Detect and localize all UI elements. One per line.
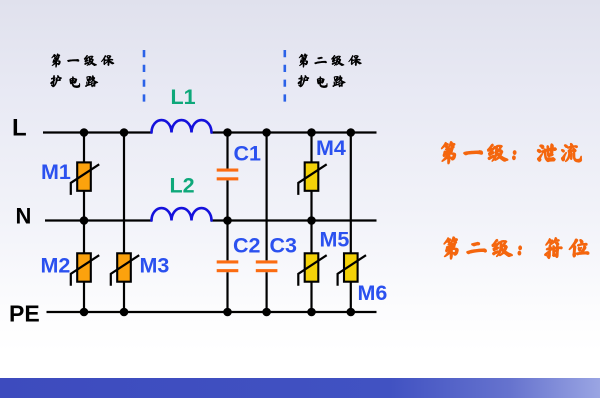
wire column M4/M5 (x=311.5) bbox=[310, 133, 312, 313]
svg-text:M4: M4 bbox=[316, 136, 346, 160]
inductor L1 bbox=[151, 120, 211, 132]
caption stage-2 protection circuit (第二级保护电路) bbox=[298, 54, 362, 88]
varistor M4 bbox=[298, 162, 326, 195]
varistor M2 bbox=[71, 253, 99, 285]
capacitor C3 bbox=[256, 260, 278, 272]
svg-text:L1: L1 bbox=[171, 85, 196, 109]
svg-text:C2: C2 bbox=[233, 234, 261, 258]
wire column M6 (x=350.5) bbox=[350, 133, 352, 313]
varistor M1 bbox=[71, 162, 99, 195]
inductor L2 bbox=[151, 208, 211, 220]
svg-text:M6: M6 bbox=[358, 281, 388, 305]
wire column M1/M2 (x=84) bbox=[83, 133, 85, 313]
junction dots on N rail bbox=[80, 216, 316, 225]
varistor M3 bbox=[111, 253, 139, 285]
junction dots on L rail bbox=[80, 128, 355, 137]
svg-text:M1: M1 bbox=[41, 160, 71, 184]
svg-text:N: N bbox=[16, 204, 32, 229]
wire column C3 (x=266.5) bbox=[266, 133, 268, 313]
wire column C1/C2 (x=227.5) bbox=[226, 133, 228, 313]
svg-text:PE: PE bbox=[9, 301, 40, 327]
svg-text:M2: M2 bbox=[41, 254, 71, 278]
svg-text:M3: M3 bbox=[140, 254, 170, 278]
stage separator dashed line 1 bbox=[143, 50, 146, 104]
junction dots on PE rail bbox=[80, 308, 355, 317]
wire PE rail bbox=[47, 311, 377, 313]
varistor M5 bbox=[298, 253, 326, 285]
wire L rail right segment bbox=[211, 131, 377, 133]
capacitor C1 bbox=[217, 169, 239, 181]
annotation stage 1: discharge (第一级：泄流) bbox=[441, 142, 581, 164]
svg-text:M5: M5 bbox=[320, 228, 350, 252]
svg-text:L2: L2 bbox=[170, 174, 195, 198]
wire N rail right segment bbox=[211, 219, 377, 221]
svg-text:C3: C3 bbox=[270, 234, 298, 258]
wire column M3 (x=123.5) bbox=[123, 133, 125, 313]
stage separator dashed line 2 bbox=[283, 50, 286, 104]
varistor M6 bbox=[338, 253, 366, 285]
wire N rail left segment bbox=[45, 219, 153, 221]
caption stage-1 protection circuit (第一级保护电路) bbox=[50, 54, 114, 88]
annotation stage 2: clamping (第二级：箝位) bbox=[444, 237, 589, 259]
svg-text:L: L bbox=[12, 115, 27, 142]
wire L rail left segment bbox=[43, 131, 153, 133]
capacitor C2 bbox=[217, 260, 239, 272]
slide bottom template bar bbox=[0, 378, 600, 398]
svg-text:C1: C1 bbox=[234, 142, 262, 166]
